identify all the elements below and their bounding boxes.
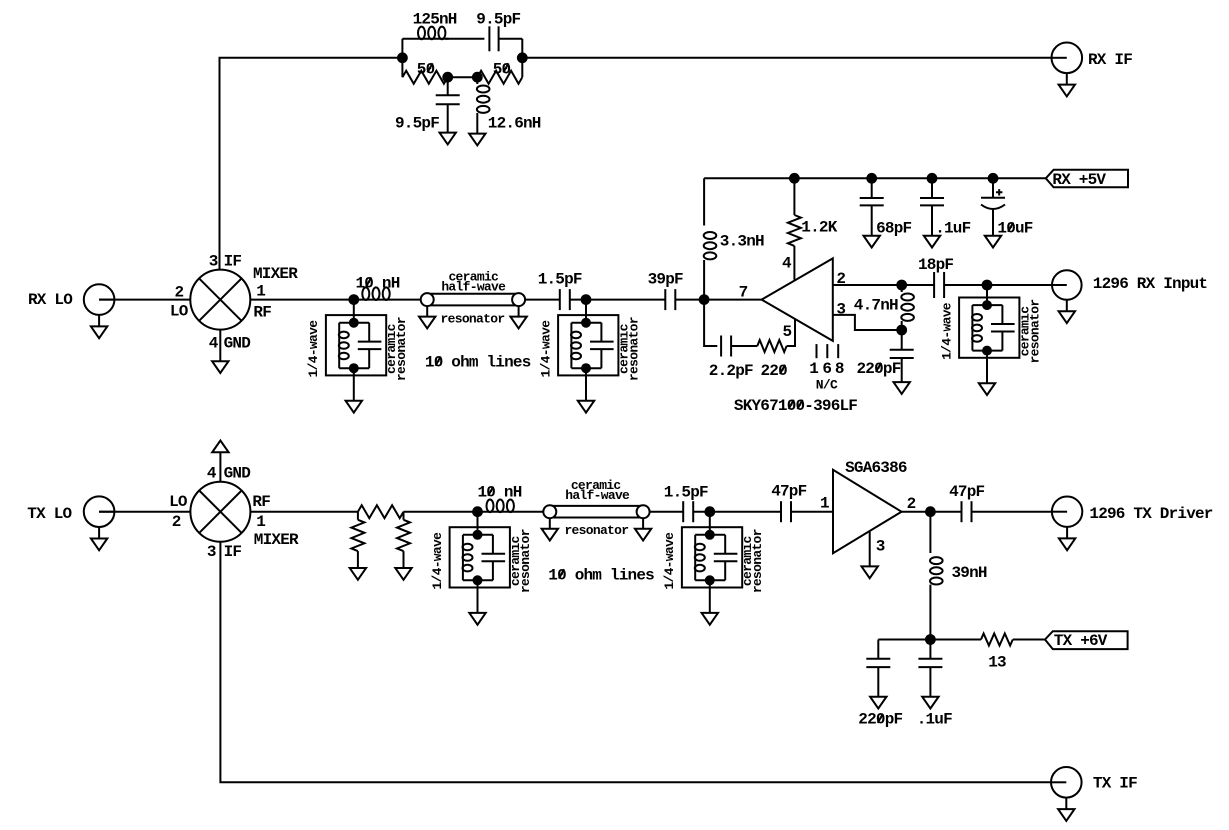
svg-text:2: 2 bbox=[172, 513, 181, 531]
svg-text:9.5pF: 9.5pF bbox=[476, 10, 520, 28]
wire: 68pF to ground bbox=[871, 205, 873, 235]
node: diplexer output junction bbox=[518, 53, 527, 62]
ground below 220pF (RX) bbox=[894, 382, 910, 394]
svg-text:10uF: 10uF bbox=[997, 220, 1032, 238]
ceramic half-wave resonator (RX) left end circle bbox=[421, 293, 434, 306]
label 10 nH (RX) bbox=[356, 274, 400, 292]
wire: quarter-wave ceramic resonator (TX 1) ground lead bbox=[477, 580, 479, 613]
wire: 220pF top lead (TX) bbox=[877, 640, 879, 659]
capacitor .1uF (RX) bbox=[920, 198, 944, 205]
wire: 18pF to RX input connector bbox=[944, 284, 1051, 286]
wire: quarter-wave ceramic resonator (RX 1) top lead bbox=[353, 300, 355, 323]
label 12.6nH bbox=[488, 115, 541, 133]
svg-text:LO: LO bbox=[169, 493, 188, 511]
wire: node to SKY amp apex bbox=[704, 299, 762, 301]
wire: quarter-wave ceramic resonator (RX input) top lead bbox=[986, 285, 988, 305]
slash on 0 of SKY67100 bbox=[789, 400, 803, 409]
label 1/4-wave of quarter-wave ceramic resonator (RX 1) bbox=[306, 320, 321, 378]
svg-text:resonator: resonator bbox=[626, 317, 641, 381]
svg-text:RF: RF bbox=[252, 493, 270, 511]
svg-text:18pF: 18pF bbox=[918, 256, 953, 274]
svg-text:1/4-wave: 1/4-wave bbox=[306, 320, 321, 378]
svg-text:2: 2 bbox=[836, 270, 845, 288]
op-amp U2 SGA6386 triangle bbox=[833, 470, 902, 553]
label resonator of quarter-wave ceramic resonator (RX input) bbox=[1027, 300, 1042, 364]
wire: 220pF to ground (RX) bbox=[901, 358, 903, 382]
ceramic half-wave resonator (RX) right end circle bbox=[512, 293, 525, 306]
svg-text:12.6nH: 12.6nH bbox=[488, 115, 541, 133]
ground of quarter-wave ceramic resonator (TX 1) bbox=[469, 613, 485, 625]
wire: RX mixer GND pin lead bbox=[219, 330, 221, 362]
wire: TX LO to mixer bbox=[99, 511, 190, 513]
svg-text:2: 2 bbox=[907, 495, 916, 513]
wire: shunt 12.6nH bottom lead bbox=[476, 113, 478, 134]
wire: 39nH to TX bias node bbox=[929, 585, 931, 640]
label 3.3nH bbox=[720, 233, 764, 251]
label MIXER (RX) bbox=[253, 265, 298, 283]
wire: resonator 2 to 39pF (RX) bbox=[586, 299, 665, 301]
slash on 0 of RX 10 nH bbox=[366, 277, 371, 286]
svg-text:1.2K: 1.2K bbox=[801, 219, 837, 237]
label 125nH bbox=[413, 10, 457, 28]
capacitor 9.5pF (shunt) bbox=[436, 95, 460, 104]
label MIXER (TX) bbox=[254, 531, 299, 549]
svg-text:RX LO: RX LO bbox=[28, 291, 73, 309]
label pin 3 of TX mixer bbox=[207, 543, 216, 561]
wire: rail to 10uF bbox=[992, 178, 994, 198]
label pin 4 of TX mixer bbox=[207, 465, 217, 483]
quarter-wave ceramic resonator (TX 1) box bbox=[450, 527, 510, 587]
ground of quarter-wave ceramic resonator (RX input) bbox=[979, 383, 995, 395]
label pin 2 of TX mixer bbox=[172, 513, 181, 531]
wire: shunt 12.6nH top lead bbox=[476, 77, 478, 84]
slash on 0 of 10uF bbox=[1008, 223, 1013, 232]
label IF of TX mixer bbox=[224, 543, 242, 561]
capacitor .1uF (TX) bbox=[918, 659, 942, 667]
svg-text:3: 3 bbox=[836, 301, 845, 319]
slash on 0 of 220 bbox=[780, 365, 785, 374]
resistor shunt 2 (pi attenuator) bbox=[397, 520, 410, 551]
ground below shunt resistor 1 bbox=[350, 568, 366, 580]
node: TX output bias tap bbox=[926, 507, 935, 516]
label 10uF bbox=[997, 220, 1032, 238]
resistor series (pi attenuator) bbox=[358, 505, 404, 518]
node: RX input resonator tap bbox=[983, 281, 992, 290]
inductor of quarter-wave ceramic resonator (RX 2) bbox=[571, 332, 581, 360]
wire: RX LO to mixer bbox=[99, 299, 190, 301]
label 47pF (TX input) bbox=[771, 482, 806, 500]
label 2.2pF bbox=[709, 362, 753, 380]
ground of quarter-wave ceramic resonator (RX 2) bbox=[578, 401, 594, 413]
wire: pin2 node to 18pF bbox=[902, 284, 934, 286]
resistor 50 (left) bbox=[402, 71, 447, 84]
node: quarter-wave ceramic resonator (RX 2) top junction bbox=[582, 319, 590, 327]
ceramic half-wave resonator (RX) body lines bbox=[427, 294, 518, 306]
svg-text:RX IF: RX IF bbox=[1088, 51, 1132, 69]
svg-text:resonator: resonator bbox=[564, 523, 628, 538]
quarter-wave ceramic resonator (RX 2) inner loop wires bbox=[571, 323, 601, 369]
label pin 5 of U1 bbox=[783, 323, 792, 341]
node: quarter-wave ceramic resonator (RX 1) bottom junction bbox=[350, 364, 358, 372]
label N/C bbox=[816, 378, 838, 393]
label pin 3 of U1 bbox=[836, 301, 845, 319]
label RF of TX mixer bbox=[252, 493, 270, 511]
quarter-wave ceramic resonator (RX input) box bbox=[959, 298, 1019, 358]
svg-text:3: 3 bbox=[209, 253, 218, 271]
ground below 12.6nH bbox=[469, 134, 485, 146]
resistor 13 bbox=[981, 634, 1013, 646]
capacitor 47pF (TX input) bbox=[781, 501, 791, 522]
label 220pF (TX) bbox=[858, 711, 902, 729]
wire: .1uF top lead (TX) bbox=[929, 640, 931, 659]
connector RX LO bbox=[84, 284, 115, 338]
wire: TX bias node to 13 resistor bbox=[930, 639, 981, 641]
wire: attenuator to TX resonator node bbox=[404, 511, 478, 513]
label 68pF bbox=[876, 220, 911, 238]
inductor 39nH bbox=[930, 557, 943, 584]
ground below .1uF (TX) bbox=[922, 697, 938, 709]
label pin 8 of U1 bbox=[835, 360, 844, 378]
svg-text:GND: GND bbox=[224, 334, 251, 352]
ground below 220pF (TX) bbox=[870, 697, 886, 709]
label RX +5V bbox=[1052, 171, 1106, 189]
connector TX LO bbox=[84, 496, 115, 550]
label resonator of quarter-wave ceramic resonator (TX 1) bbox=[518, 529, 533, 593]
label ceramic of quarter-wave ceramic resonator (TX 1) bbox=[508, 535, 523, 586]
svg-text:1: 1 bbox=[820, 494, 829, 512]
capacitor 220pF (TX) bbox=[866, 659, 890, 667]
wire: node to 220pF (RX) bbox=[901, 330, 903, 350]
label resonator of quarter-wave ceramic resonator (TX 2) bbox=[750, 529, 765, 593]
label pin 7 of U1 bbox=[739, 284, 748, 302]
svg-text:.1uF: .1uF bbox=[917, 711, 952, 729]
svg-text:13: 13 bbox=[988, 653, 1006, 671]
label 39nH bbox=[952, 564, 987, 582]
label resonator of quarter-wave ceramic resonator (RX 2) bbox=[626, 317, 641, 381]
wire: diplexer top branch left lead bbox=[402, 38, 449, 40]
node: TX resonator 1 tap bbox=[473, 507, 482, 516]
svg-text:resonator: resonator bbox=[441, 312, 505, 327]
svg-text:TX IF: TX IF bbox=[1093, 774, 1137, 792]
node: quarter-wave ceramic resonator (TX 1) top junction bbox=[474, 531, 482, 539]
svg-text:RX +5V: RX +5V bbox=[1052, 171, 1106, 189]
ground above TX mixer (pin 4) bbox=[212, 441, 228, 453]
node: diplexer shunt C junction bbox=[443, 73, 452, 82]
op-amp U1 SKY67100-396LF triangle bbox=[762, 258, 833, 341]
label ceramic (TX half-wave) bbox=[571, 478, 622, 493]
label GND of TX mixer bbox=[224, 465, 251, 483]
svg-text:SKY67100-396LF: SKY67100-396LF bbox=[734, 397, 857, 415]
capacitor 1.5pF (RX) bbox=[560, 289, 570, 310]
svg-text:N/C: N/C bbox=[816, 378, 838, 393]
node: quarter-wave ceramic resonator (RX input) top junction bbox=[983, 301, 991, 309]
svg-text:39nH: 39nH bbox=[952, 564, 987, 582]
label IF of RX mixer bbox=[224, 253, 242, 271]
svg-text:47pF: 47pF bbox=[949, 483, 984, 501]
label 1/4-wave of quarter-wave ceramic resonator (RX 2) bbox=[538, 320, 553, 378]
ground below RX mixer bbox=[212, 361, 228, 373]
node: rail at 1.2K bbox=[790, 174, 799, 183]
connector 1296 RX Input bbox=[1052, 270, 1082, 323]
label 1/4-wave of quarter-wave ceramic resonator (TX 2) bbox=[662, 532, 677, 590]
svg-text:4: 4 bbox=[207, 465, 217, 483]
label LO of RX mixer bbox=[170, 303, 189, 321]
wire: diplexer right vertical bbox=[521, 39, 523, 77]
label ceramic (RX half-wave) bbox=[448, 270, 499, 285]
wire: 10uF to ground bbox=[992, 210, 994, 236]
svg-text:MIXER: MIXER bbox=[253, 265, 298, 283]
pin stubs 1 6 8 N/C of U1 bbox=[817, 344, 839, 358]
label TX IF bbox=[1093, 774, 1137, 792]
svg-text:1296 RX Input: 1296 RX Input bbox=[1093, 275, 1208, 293]
label RX IF bbox=[1088, 51, 1132, 69]
svg-text:.1uF: .1uF bbox=[935, 220, 970, 238]
svg-text:68pF: 68pF bbox=[876, 220, 911, 238]
svg-text:GND: GND bbox=[224, 465, 251, 483]
label 1296 RX Input bbox=[1093, 275, 1208, 293]
inductor 4.7nH bbox=[901, 294, 914, 321]
svg-text:1/4-wave: 1/4-wave bbox=[662, 532, 677, 590]
node: rail at 10uF bbox=[989, 174, 998, 183]
capacitor 47pF (TX output) bbox=[962, 501, 972, 522]
wire: 1.5pF to resonator 2 (RX) bbox=[570, 299, 586, 301]
svg-text:resonator: resonator bbox=[1027, 300, 1042, 364]
label 4.7nH bbox=[854, 297, 898, 315]
capacitor 68pF bbox=[860, 198, 884, 205]
label 18pF bbox=[918, 256, 953, 274]
wire: 2.2pF to 220 resistor bbox=[731, 345, 757, 347]
label 220 (feedback) bbox=[761, 362, 788, 380]
capacitor 39pF bbox=[665, 289, 675, 310]
svg-text:4: 4 bbox=[209, 334, 219, 352]
wire: quarter-wave ceramic resonator (RX 1) ground lead bbox=[353, 368, 355, 401]
label pin 4 of RX mixer bbox=[209, 334, 219, 352]
wire: RX mixer IF to top rail bbox=[220, 58, 403, 270]
inductor of quarter-wave ceramic resonator (TX 2) bbox=[695, 544, 705, 572]
wire: 3.3nH to input node bbox=[703, 260, 705, 300]
svg-text:1296 TX Driver: 1296 TX Driver bbox=[1089, 505, 1212, 523]
wire: bias branch vertical (rail to 3.3nH) bbox=[703, 178, 705, 225]
svg-text:6: 6 bbox=[822, 360, 831, 378]
capacitor 10uF (polarized) bbox=[981, 189, 1005, 209]
svg-text:SGA6386: SGA6386 bbox=[845, 459, 907, 477]
label 1/4-wave of quarter-wave ceramic resonator (TX 1) bbox=[430, 532, 445, 590]
label 47pF (TX output) bbox=[949, 483, 984, 501]
wire: bias tap to 39nH bbox=[929, 512, 931, 553]
inductor 125nH bbox=[418, 27, 445, 40]
ceramic half-wave resonator (TX) body lines bbox=[550, 506, 643, 518]
label pin 1 of U2 bbox=[820, 494, 829, 512]
label resonator (RX half-wave) bbox=[441, 312, 505, 327]
wire: under 10 nH coil (TX) bbox=[478, 511, 544, 513]
node: RX resonator 2 tap bbox=[582, 295, 591, 304]
label 9.5pF (series) bbox=[476, 10, 520, 28]
svg-text:10 ohm lines: 10 ohm lines bbox=[425, 354, 531, 372]
wire: 1.5pF to resonator 2 (TX) bbox=[693, 511, 710, 513]
wire: 4.7nH bottom lead bbox=[901, 321, 903, 330]
node: diplexer input junction bbox=[398, 53, 407, 62]
svg-text:LO: LO bbox=[170, 303, 189, 321]
label ceramic of quarter-wave ceramic resonator (RX 2) bbox=[616, 323, 631, 374]
capacitor of quarter-wave ceramic resonator (RX 1) bbox=[358, 342, 382, 350]
wire: top rail to RX IF connector bbox=[522, 57, 1051, 59]
label 1.5pF (RX) bbox=[538, 270, 582, 288]
label SGA6386 bbox=[845, 459, 907, 477]
capacitor 220pF (RX) bbox=[890, 350, 914, 358]
capacitor 1.5pF (TX) bbox=[683, 501, 693, 522]
wire: 47pF to U2 pin 1 bbox=[791, 511, 833, 513]
svg-text:IF: IF bbox=[224, 253, 242, 271]
label resonator (TX half-wave) bbox=[564, 523, 628, 538]
wire: quarter-wave ceramic resonator (RX input) ground lead bbox=[986, 351, 988, 384]
svg-text:1.5pF: 1.5pF bbox=[538, 270, 582, 288]
wire: TX bias line left bbox=[878, 639, 930, 641]
svg-text:4.7nH: 4.7nH bbox=[854, 297, 898, 315]
label RF of RX mixer bbox=[253, 304, 271, 322]
slash on 0 of TX 220pF bbox=[878, 714, 883, 723]
label 10 ohm lines (RX) bbox=[425, 354, 531, 372]
capacitor 2.2pF bbox=[721, 336, 731, 357]
wire: quarter-wave ceramic resonator (TX 2) ground lead bbox=[709, 580, 711, 613]
wire: .1uF to ground (TX) bbox=[929, 667, 931, 697]
power flag TX +6V bbox=[1045, 631, 1128, 649]
svg-text:4: 4 bbox=[782, 255, 792, 273]
node: SKY amp input node bbox=[700, 295, 709, 304]
node: quarter-wave ceramic resonator (RX input) bottom junction bbox=[983, 347, 991, 355]
wire: TX mixer GND pin lead bbox=[219, 452, 221, 481]
label 1/4-wave of quarter-wave ceramic resonator (RX input) bbox=[939, 302, 954, 360]
svg-text:TX +6V: TX +6V bbox=[1054, 632, 1108, 650]
wire: 4.7nH top lead bbox=[901, 285, 903, 292]
svg-text:125nH: 125nH bbox=[413, 10, 457, 28]
label GND of RX mixer bbox=[224, 334, 251, 352]
node: TX resonator 2 tap bbox=[705, 507, 714, 516]
svg-text:39pF: 39pF bbox=[648, 270, 683, 288]
label RX LO bbox=[28, 291, 73, 309]
wire: diplexer top branch middle lead bbox=[445, 38, 484, 40]
node: quarter-wave ceramic resonator (TX 2) top junction bbox=[706, 531, 714, 539]
node: quarter-wave ceramic resonator (TX 2) bottom junction bbox=[706, 576, 714, 584]
svg-text:IF: IF bbox=[224, 543, 242, 561]
label shunt 9.5pF bbox=[395, 115, 439, 133]
resistor 50 (right) bbox=[477, 71, 522, 84]
svg-text:1/4-wave: 1/4-wave bbox=[939, 302, 954, 360]
mixer U4 (TX) bbox=[190, 482, 250, 542]
power flag RX +5V bbox=[1046, 170, 1128, 188]
wire: diplexer top branch right lead bbox=[499, 38, 523, 40]
wire: under 10 nH coil (RX) bbox=[354, 299, 421, 301]
wire: shunt 9.5pF top lead bbox=[447, 77, 449, 95]
ground below .1uF (RX) bbox=[924, 236, 940, 248]
wire: 39pF to amp input node bbox=[675, 299, 704, 301]
wire: quarter-wave ceramic resonator (TX 1) top lead bbox=[477, 512, 479, 535]
wire: U2 pin 3 lead bbox=[869, 531, 871, 566]
label .1uF (RX) bbox=[935, 220, 970, 238]
ground below shunt 9.5pF bbox=[440, 133, 456, 145]
label LO of TX mixer bbox=[169, 493, 188, 511]
svg-text:10 ohm lines: 10 ohm lines bbox=[548, 566, 654, 584]
quarter-wave ceramic resonator (TX 2) inner loop wires bbox=[695, 535, 725, 581]
wire: resonator 2 to 47pF (TX) bbox=[710, 511, 781, 513]
node: RX resonator 1 tap bbox=[349, 295, 358, 304]
mixer U3 (RX) bbox=[190, 270, 250, 330]
wire: 220pF to ground (TX) bbox=[877, 667, 879, 697]
svg-text:220: 220 bbox=[761, 362, 788, 380]
label half-wave (RX) bbox=[441, 279, 506, 294]
wire: attenuator shunt 1 top lead bbox=[357, 512, 359, 520]
resistor 220 (feedback) bbox=[757, 340, 786, 352]
ground at ceramic half-wave resonator (RX) right end bbox=[510, 306, 526, 328]
ground below U2 pin 3 bbox=[862, 566, 878, 578]
node: diplexer shunt L junction bbox=[473, 73, 482, 82]
wire: RX supply rail bbox=[704, 177, 1046, 179]
capacitor of quarter-wave ceramic resonator (RX 2) bbox=[590, 342, 614, 350]
node: quarter-wave ceramic resonator (TX 1) bottom junction bbox=[474, 576, 482, 584]
label 39pF bbox=[648, 270, 683, 288]
ceramic half-wave resonator (TX) left end circle bbox=[543, 505, 556, 518]
slash on 0 of RX 10 ohm bbox=[436, 357, 441, 366]
label pin 2 of U1 bbox=[836, 270, 845, 288]
svg-text:RF: RF bbox=[253, 304, 271, 322]
svg-text:2: 2 bbox=[175, 283, 184, 301]
svg-text:1/4-wave: 1/4-wave bbox=[430, 532, 445, 590]
wire: rail to 68pF bbox=[871, 178, 873, 198]
slash on 0 of TX 10 nH bbox=[488, 487, 493, 496]
svg-text:9.5pF: 9.5pF bbox=[395, 115, 439, 133]
inductor 12.6nH bbox=[477, 86, 490, 113]
label pin 2 of RX mixer bbox=[175, 283, 184, 301]
svg-text:10 nH: 10 nH bbox=[478, 484, 522, 502]
label pin 1 of U1 bbox=[809, 360, 818, 378]
node: rail at .1uF bbox=[928, 174, 937, 183]
svg-text:half-wave: half-wave bbox=[565, 488, 630, 503]
capacitor 9.5pF (series) bbox=[489, 26, 498, 51]
label ceramic of quarter-wave ceramic resonator (TX 2) bbox=[740, 535, 755, 586]
svg-text:8: 8 bbox=[835, 360, 844, 378]
wire: U2 output to 47pF bbox=[902, 511, 962, 513]
wire: quarter-wave ceramic resonator (RX 2) top lead bbox=[585, 300, 587, 323]
svg-text:1/4-wave: 1/4-wave bbox=[538, 320, 553, 378]
node: quarter-wave ceramic resonator (RX 1) top junction bbox=[350, 319, 358, 327]
inductor 3.3nH bbox=[704, 232, 717, 259]
wire: 220 to pin 5 bbox=[787, 319, 795, 346]
ground at ceramic half-wave resonator (TX) left end bbox=[542, 518, 558, 540]
svg-text:resonator: resonator bbox=[750, 529, 765, 593]
wire: U1 pin 3 dogleg bbox=[833, 315, 902, 330]
wire: half-wave to 1.5pF (TX) bbox=[650, 511, 684, 513]
svg-text:3.3nH: 3.3nH bbox=[720, 233, 764, 251]
capacitor of quarter-wave ceramic resonator (TX 2) bbox=[714, 554, 738, 562]
ground of quarter-wave ceramic resonator (TX 2) bbox=[702, 613, 718, 625]
wire: rail to .1uF bbox=[931, 178, 933, 198]
label TX +6V bbox=[1054, 632, 1108, 650]
resistor 1.2K bbox=[788, 215, 801, 246]
label pin 1 of TX mixer bbox=[256, 513, 265, 531]
node: 4.7nH top bbox=[897, 281, 906, 290]
ground of quarter-wave ceramic resonator (RX 1) bbox=[346, 401, 362, 413]
svg-text:5: 5 bbox=[783, 323, 792, 341]
label half-wave (TX) bbox=[565, 488, 630, 503]
label pin 3 of U2 bbox=[876, 538, 885, 556]
ground below 10uF bbox=[985, 236, 1001, 248]
svg-text:1: 1 bbox=[256, 513, 265, 531]
svg-text:1: 1 bbox=[809, 360, 818, 378]
wire: TX mixer IF down and across to TX IF bbox=[220, 542, 1051, 783]
wire: 47pF to TX driver connector bbox=[972, 511, 1052, 513]
connector TX IF bbox=[1051, 767, 1082, 821]
label 50 (left) bbox=[417, 60, 435, 78]
label ceramic of quarter-wave ceramic resonator (RX 1) bbox=[384, 323, 399, 374]
